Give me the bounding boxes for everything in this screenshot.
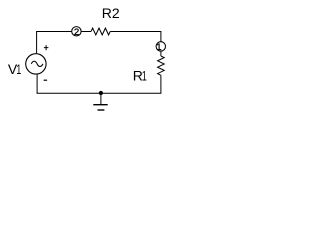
plus polarity mark of V1 bbox=[44, 45, 49, 50]
svg-text:1: 1 bbox=[142, 67, 147, 84]
wire: V1 top to top rail left segment into node 2 bbox=[37, 32, 72, 54]
svg-text:2: 2 bbox=[112, 5, 120, 21]
resistor R2 bbox=[91, 28, 110, 35]
value label R2 bbox=[102, 5, 120, 21]
wire: node 2 to R2 left lead bbox=[81, 31, 91, 33]
reference label V1 bbox=[8, 61, 21, 78]
wire: node 1 to R1 top lead bbox=[160, 51, 162, 56]
node 1 bbox=[156, 42, 165, 53]
node 2 bbox=[72, 27, 81, 38]
svg-text:2: 2 bbox=[74, 27, 79, 38]
wire: V1 bottom down to bottom rail bbox=[36, 75, 38, 94]
ground bbox=[93, 93, 107, 110]
wire: bottom rail bbox=[37, 92, 162, 94]
junction dot at ground tap bbox=[99, 91, 103, 95]
svg-text:R: R bbox=[102, 5, 112, 21]
value label R1 bbox=[133, 67, 147, 84]
resistor R1 bbox=[158, 56, 165, 75]
wire: R1 bottom lead down to bottom rail bbox=[160, 75, 162, 93]
svg-text:1: 1 bbox=[16, 61, 21, 78]
wire: R2 right lead along top rail, corner down to node 1 bbox=[110, 32, 161, 42]
minus polarity mark of V1 bbox=[44, 79, 48, 81]
voltage source V1 (AC) bbox=[26, 54, 46, 74]
